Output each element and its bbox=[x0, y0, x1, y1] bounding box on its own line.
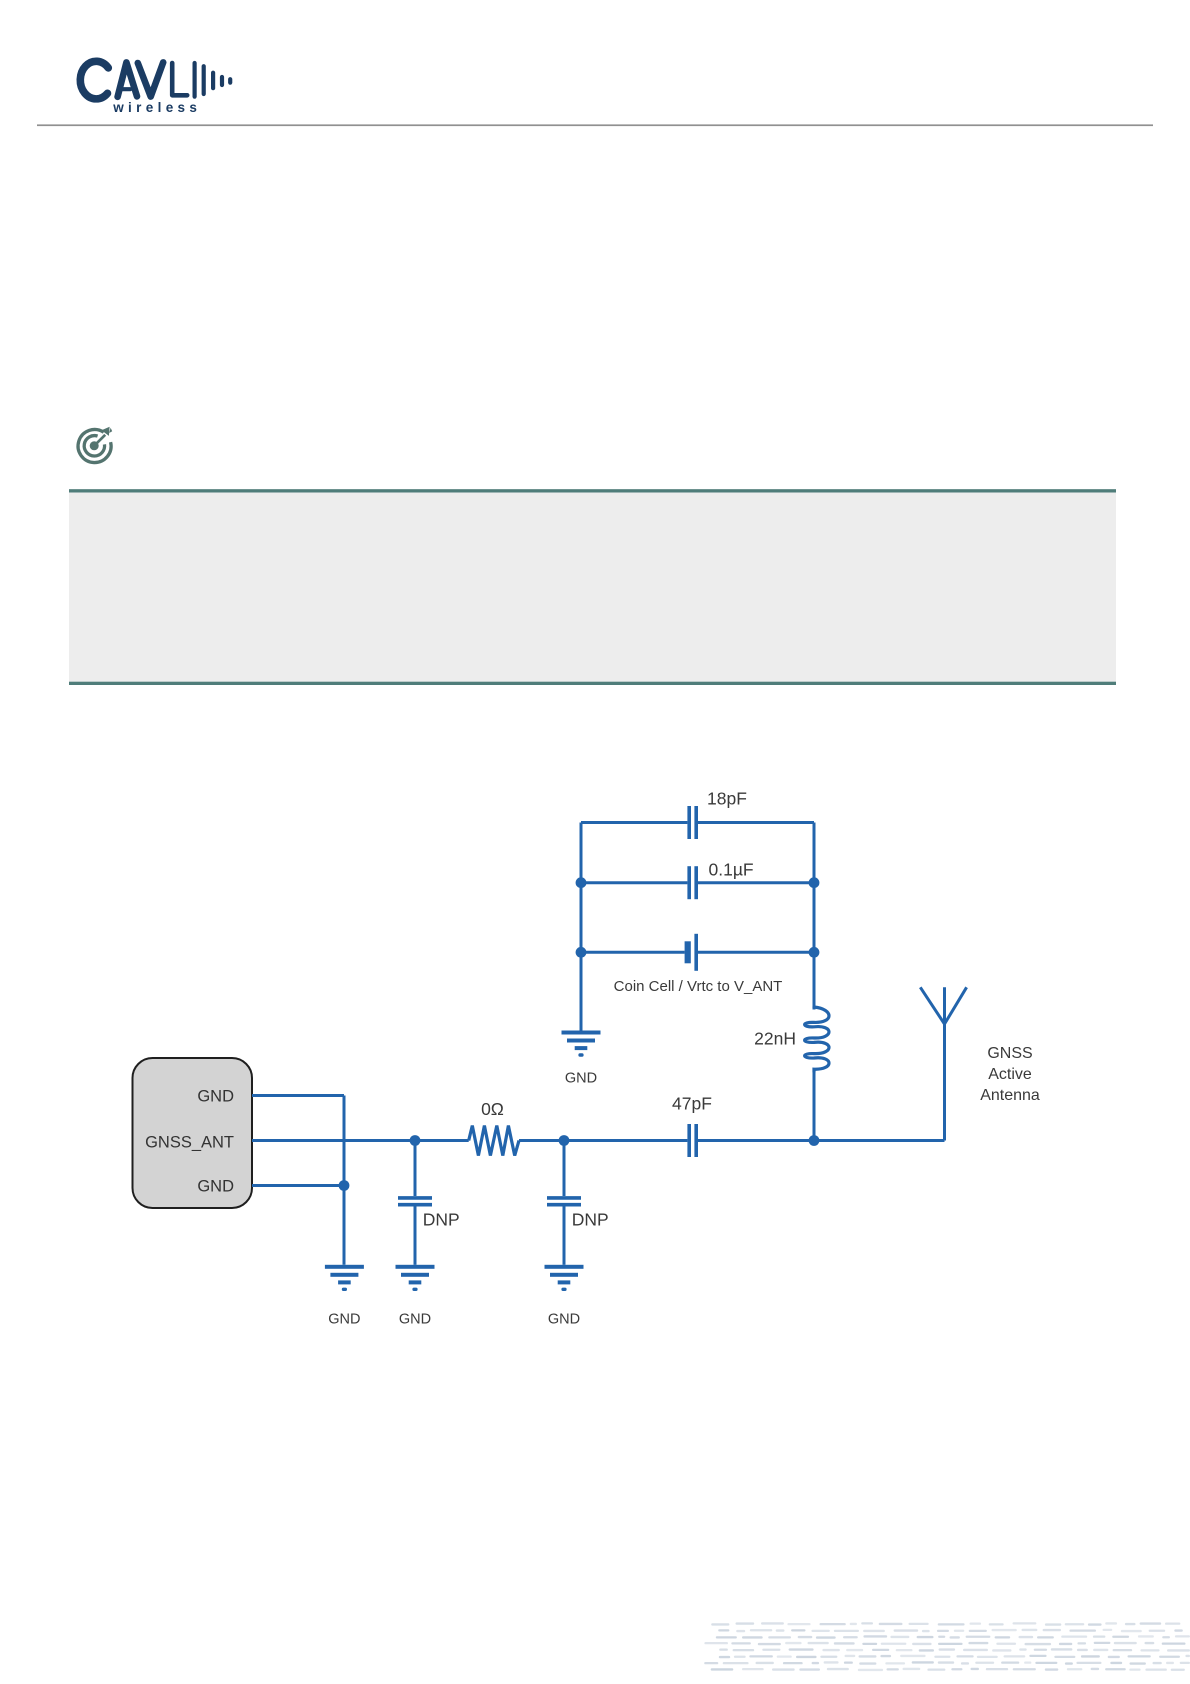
svg-text:wireless: wireless bbox=[112, 100, 201, 115]
svg-text:47pF: 47pF bbox=[672, 1094, 712, 1114]
ground symbol (C4) bbox=[545, 1265, 584, 1291]
svg-text:GND: GND bbox=[565, 1071, 597, 1087]
ground symbol (coin cell) bbox=[562, 1031, 601, 1057]
svg-text:GND: GND bbox=[197, 1087, 234, 1105]
svg-text:DNP: DNP bbox=[423, 1210, 460, 1230]
svg-text:GNSS_ANT: GNSS_ANT bbox=[145, 1133, 234, 1151]
section icon: target with arrow bbox=[78, 427, 112, 463]
module U1 GNSS module bbox=[133, 1058, 253, 1208]
ground symbol (module) bbox=[325, 1265, 364, 1291]
Cavli Wireless logo bbox=[80, 61, 230, 99]
capacitor C5 47pF bbox=[689, 1124, 696, 1157]
junction DNP1 tap bbox=[410, 1135, 421, 1146]
note box bbox=[69, 489, 1116, 685]
svg-text:GNSSActiveAntenna: GNSSActiveAntenna bbox=[980, 1045, 1040, 1104]
capacitor C3 DNP bbox=[398, 1142, 432, 1265]
svg-text:0Ω: 0Ω bbox=[481, 1099, 504, 1119]
wire GND bottom pin bbox=[252, 1184, 344, 1187]
svg-text:GND: GND bbox=[399, 1312, 431, 1328]
svg-text:GND: GND bbox=[328, 1312, 360, 1328]
wire GND vertical bbox=[343, 1096, 346, 1265]
junction right battery bbox=[809, 947, 820, 958]
wire GNSS_ANT to resistor bbox=[252, 1139, 469, 1142]
svg-text:DNP: DNP bbox=[572, 1210, 609, 1230]
wire resistor to 47pF bbox=[519, 1139, 687, 1142]
wire 0.1uF branch bbox=[581, 881, 814, 884]
junction DNP2 tap bbox=[559, 1135, 570, 1146]
inductor L1 22nH bbox=[805, 1007, 829, 1072]
battery BT1 coin cell bbox=[685, 934, 698, 971]
wire right loop vertical upper bbox=[813, 823, 816, 1010]
svg-text:18pF: 18pF bbox=[707, 789, 747, 809]
junction left 0.1uF bbox=[576, 877, 587, 888]
svg-text:22nH: 22nH bbox=[754, 1029, 796, 1049]
capacitor C1 18pF bbox=[689, 806, 696, 839]
capacitor C4 DNP bbox=[547, 1142, 581, 1265]
svg-text:GND: GND bbox=[197, 1177, 234, 1195]
svg-text:0.1µF: 0.1µF bbox=[709, 860, 754, 880]
junction GND pins bbox=[339, 1180, 350, 1191]
svg-text:Coin Cell / Vrtc to V_ANT: Coin Cell / Vrtc to V_ANT bbox=[614, 978, 783, 995]
svg-text:GND: GND bbox=[548, 1312, 580, 1328]
antenna ANT1 GNSS active antenna bbox=[920, 987, 966, 1140]
junction node V_ANT bbox=[809, 1135, 820, 1146]
capacitor C2 0.1µF bbox=[689, 866, 696, 899]
wire top loop upper bbox=[581, 821, 814, 824]
resistor R1 0Ω bbox=[469, 1126, 519, 1156]
wire battery branch bbox=[581, 951, 814, 954]
ground symbol (C3) bbox=[396, 1265, 435, 1291]
junction right 0.1uF bbox=[809, 877, 820, 888]
junction left battery bbox=[576, 947, 587, 958]
header rule bbox=[37, 124, 1153, 126]
wire inductor to main node bbox=[813, 1071, 816, 1141]
watermark texture bbox=[704, 1622, 1190, 1671]
wire left loop vertical bbox=[580, 823, 583, 1031]
wire GND top pin bbox=[252, 1094, 344, 1097]
wire 47pF to antenna bbox=[698, 1139, 945, 1142]
